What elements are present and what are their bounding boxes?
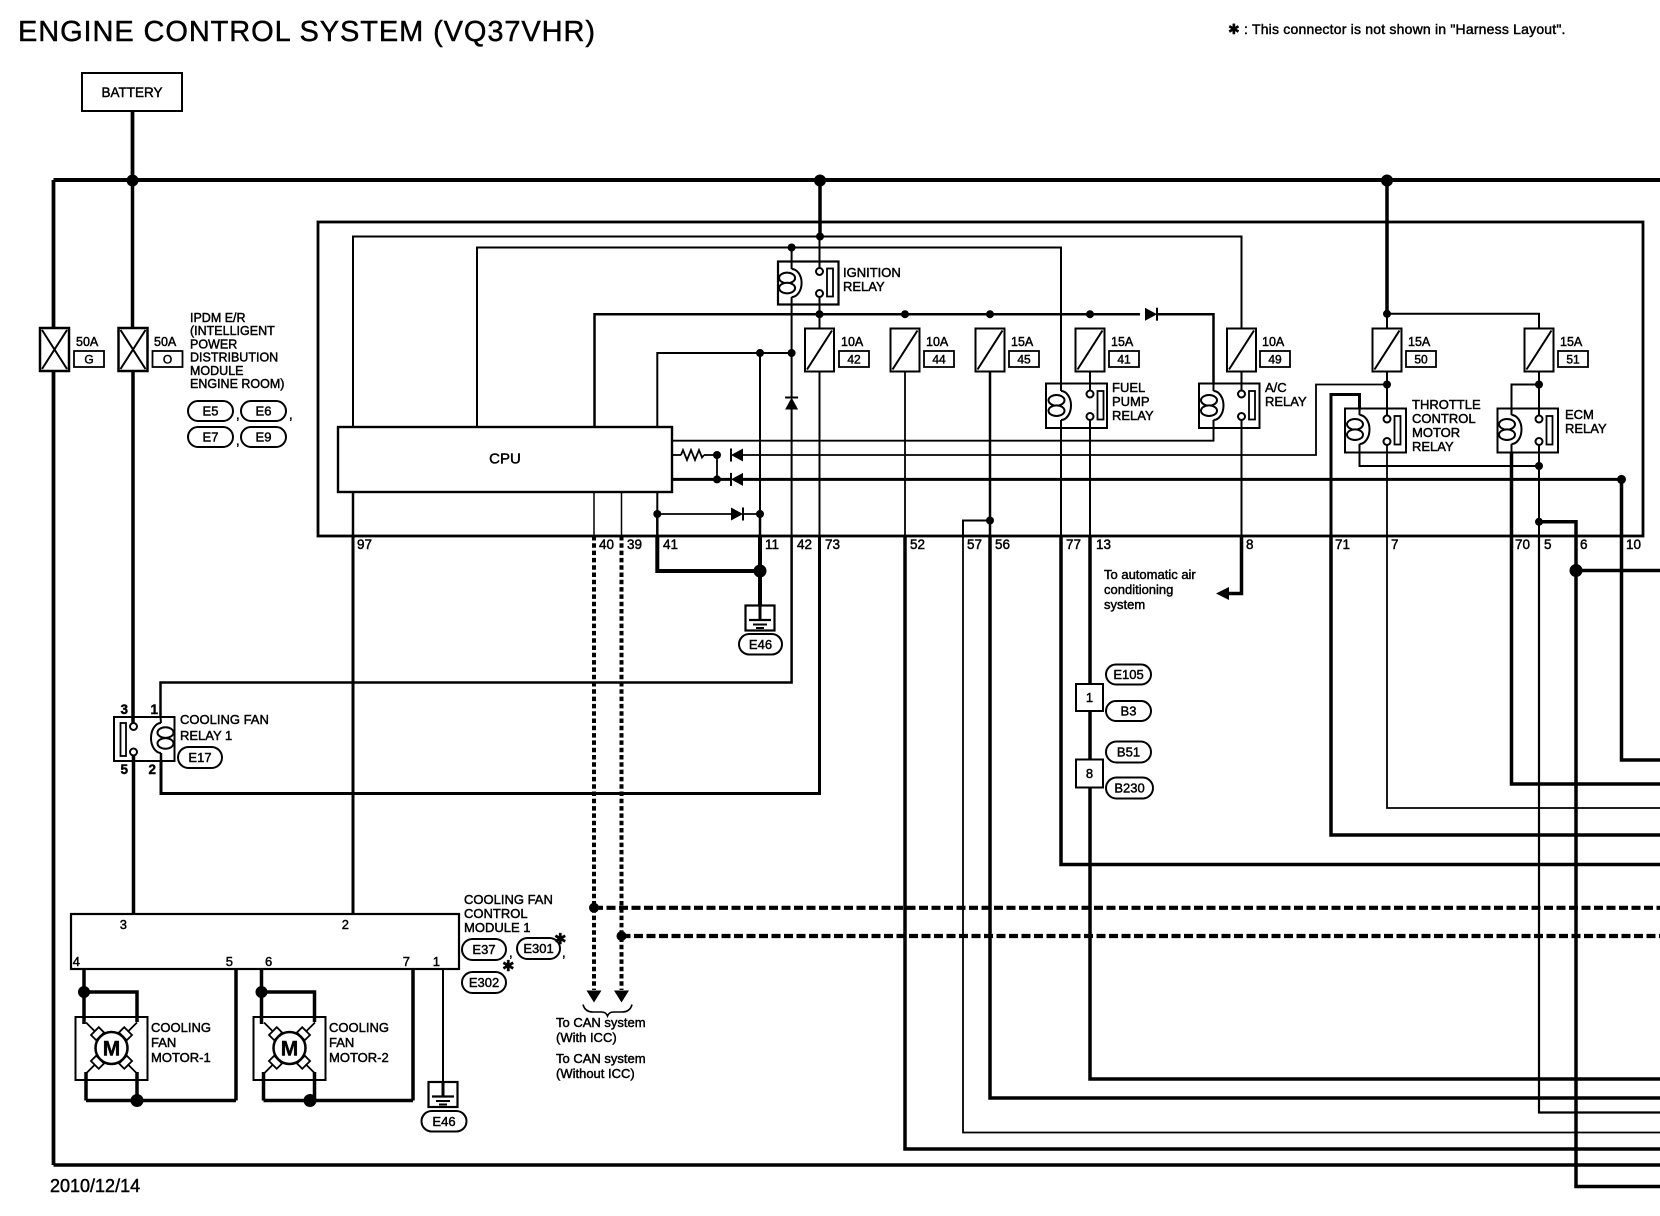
svg-text:COOLING FAN: COOLING FAN [464, 892, 553, 907]
svg-text:50A: 50A [76, 335, 99, 349]
svg-text:,: , [236, 407, 240, 422]
node ECM contact / throttle coil junction [1535, 462, 1543, 470]
svg-text:50A: 50A [154, 335, 177, 349]
IPDM E/R boundary box [318, 222, 1643, 536]
svg-text:G: G [84, 353, 93, 367]
svg-text:10A: 10A [926, 335, 949, 349]
svg-text:PUMP: PUMP [1112, 394, 1150, 409]
node motor2 return junction [304, 1094, 317, 1107]
svg-text:45: 45 [1017, 353, 1031, 367]
svg-text:IGNITION: IGNITION [843, 265, 901, 280]
wire pin 40 CAN-L drop [592, 536, 596, 990]
throttle relay contact [1384, 416, 1391, 423]
wire fuse41 to fuel pump contact [1089, 372, 1091, 391]
svg-text:1: 1 [433, 954, 440, 969]
wire module pin 1 to ground [442, 969, 444, 1082]
wire pin 39 CAN-H drop [620, 536, 624, 990]
CAN bus line 2 dashed [622, 934, 1660, 938]
wire pin 57 to right edge [963, 536, 1660, 1133]
wire link between line B and line C nodes [716, 455, 718, 479]
svg-text:15A: 15A [1560, 335, 1583, 349]
node motor2 feed [256, 986, 268, 998]
svg-text:10: 10 [1626, 537, 1641, 552]
svg-text:CPU: CPU [489, 451, 521, 468]
node fuse50 bottom [1383, 381, 1391, 389]
wire y247 feed from CPU to fuel pump coil [477, 248, 1061, 428]
svg-text:O: O [163, 353, 172, 367]
svg-text:6: 6 [1580, 537, 1588, 552]
svg-text:42: 42 [847, 353, 861, 367]
wire motor2 feed branch [262, 992, 315, 1022]
wire pin 71 to right edge [1331, 536, 1660, 835]
wire fuse O to cooling fan relay contact [131, 371, 135, 723]
node ground junction E46 [754, 565, 767, 578]
arrow to automatic A/C system [1216, 587, 1229, 600]
svg-text:RELAY: RELAY [843, 279, 885, 294]
wire battery to bus [131, 111, 135, 181]
throttle relay coil [1359, 409, 1361, 416]
wire pin 8 to A/C system arrow [1229, 536, 1242, 594]
ground E46 (module) [429, 1082, 458, 1107]
svg-text:,: , [236, 433, 240, 448]
wire throttle coil return to ECM contact line [1360, 453, 1540, 467]
wire pin 6 branch [1539, 522, 1660, 1187]
fuse 10A 49 [1227, 329, 1256, 372]
wire battery rail to fuse G [52, 180, 56, 328]
svg-text:97: 97 [357, 537, 372, 552]
node bus-right drop junction [1381, 175, 1393, 187]
node pin5/pin6 branch [1535, 518, 1543, 526]
diode D3 below CPU [731, 508, 743, 521]
svg-text:FUEL: FUEL [1112, 380, 1145, 395]
svg-text:THROTTLE: THROTTLE [1412, 397, 1481, 412]
fuel pump relay [1046, 384, 1107, 429]
svg-text:,: , [562, 945, 566, 960]
node motor1 feed [78, 986, 90, 998]
diode D1 on line B [731, 449, 743, 462]
svg-text:B3: B3 [1121, 704, 1137, 719]
svg-text:BATTERY: BATTERY [101, 85, 162, 100]
svg-text:FAN: FAN [151, 1035, 176, 1050]
fuse 15A 45 [976, 329, 1005, 372]
svg-text:5: 5 [120, 762, 128, 777]
svg-text:8: 8 [1086, 766, 1093, 781]
svg-text:E17: E17 [188, 750, 211, 765]
node relay contact bottom / fuse42 [816, 310, 824, 318]
svg-text:13: 13 [1096, 537, 1111, 552]
svg-text:MOTOR: MOTOR [1412, 425, 1460, 440]
wire throttle contact to pin 7 inside [1386, 445, 1388, 536]
wire ignition coil top stub [791, 248, 793, 262]
wire pin 11 to ground junction [758, 536, 762, 571]
fuse 15A 51 [1525, 329, 1554, 372]
svg-text:DISTRIBUTION: DISTRIBUTION [190, 351, 278, 365]
connector B51 [1106, 742, 1151, 763]
wire pin 73 to cooling fan relay coil return [161, 536, 820, 794]
wire feed to fuse 51 [1387, 314, 1539, 329]
svg-text:To CAN system: To CAN system [556, 1051, 646, 1066]
svg-text:2010/12/14: 2010/12/14 [50, 1176, 140, 1196]
svg-text:MODULE 1: MODULE 1 [464, 920, 530, 935]
svg-text:B51: B51 [1117, 745, 1140, 760]
svg-text:39: 39 [627, 537, 642, 552]
svg-text:RELAY: RELAY [1412, 439, 1454, 454]
wire A/C contact to pin 8 inside [1241, 428, 1243, 536]
wire module pin 4 [82, 969, 86, 992]
svg-text:COOLING FAN: COOLING FAN [180, 712, 269, 727]
svg-text:40: 40 [599, 537, 614, 552]
svg-text:M: M [103, 1038, 121, 1061]
svg-text:10A: 10A [1262, 335, 1285, 349]
svg-text:E7: E7 [203, 430, 219, 445]
node fuse41 feed [1086, 310, 1094, 318]
wire motor1 feed branch [84, 992, 137, 1022]
A/C relay coil [1213, 384, 1215, 392]
wire right drop from bus to fuse 50 [1385, 180, 1389, 314]
wire CPU pin 39 inside [621, 493, 623, 537]
wire CPU line C main run [672, 478, 731, 481]
wire ignition contact drop from bus [818, 180, 822, 237]
arrow to CAN system 1 [587, 991, 602, 1003]
svg-text:11: 11 [765, 537, 779, 552]
wire ECM contact to pin 5 inside [1538, 445, 1540, 536]
svg-text:B230: B230 [1114, 781, 1144, 796]
connector E6 [241, 401, 286, 421]
svg-text:ECM: ECM [1565, 407, 1594, 422]
wire pin 10 to right edge [1622, 479, 1660, 760]
wire diode to A/C relay coil [1157, 314, 1214, 383]
svg-text:2: 2 [342, 917, 349, 932]
connector E46 label (module ground) [422, 1111, 467, 1132]
svg-text:52: 52 [910, 537, 925, 552]
svg-text:conditioning: conditioning [1104, 582, 1173, 597]
fuse 10A 44 [891, 329, 920, 372]
svg-text:(With ICC): (With ICC) [556, 1030, 617, 1045]
wire pin 52 to right edge [905, 536, 1660, 1149]
svg-text:56: 56 [995, 537, 1010, 552]
ECM relay [1498, 409, 1559, 453]
wire pin 42 to cooling fan relay coil [161, 536, 792, 717]
wire ECM coil feed from fuse51 [1512, 385, 1540, 409]
node line C to pin10 [1617, 475, 1626, 484]
wire pin 77 to right edge [1061, 536, 1660, 865]
ECM relay contact [1536, 416, 1543, 423]
svg-text:15A: 15A [1408, 335, 1431, 349]
svg-text:CONTROL: CONTROL [1412, 411, 1476, 426]
svg-text:42: 42 [797, 537, 812, 552]
wire CPU pin 40 inside [593, 493, 595, 537]
svg-text:E9: E9 [256, 430, 272, 445]
CAN bus line 1 dashed [594, 906, 1660, 910]
node pin57 branch [986, 517, 994, 525]
wire battery drop to fuse O [131, 111, 135, 328]
svg-text:MOTOR-2: MOTOR-2 [329, 1050, 389, 1065]
connector E5 [188, 401, 233, 421]
zener diode D5 to pin42 [791, 353, 793, 398]
wire line B to throttle relay feed [743, 385, 1387, 456]
wire motor1 return to module pin 5 [137, 1099, 236, 1103]
fuse 10A 42 [819, 314, 821, 328]
svg-text:ENGINE ROOM): ENGINE ROOM) [190, 377, 284, 391]
node bus-battery junction [127, 175, 139, 187]
svg-text:3: 3 [120, 702, 128, 717]
node pin6 output junction [1570, 564, 1583, 577]
svg-text:RELAY: RELAY [1112, 408, 1154, 423]
cooling fan control module 1 [71, 914, 459, 969]
svg-text:E5: E5 [203, 404, 219, 419]
svg-text:E46: E46 [749, 637, 772, 652]
wire fuse50 to throttle contact [1386, 372, 1388, 416]
svg-text:✱: ✱ [502, 958, 515, 975]
wire motor2 return to module pin 7 [310, 1099, 413, 1103]
svg-text:49: 49 [1268, 353, 1282, 367]
wire throttle relay coil feed (pin 71 riser) [1331, 395, 1360, 537]
node pin41 diode junction [653, 510, 661, 518]
svg-text:41: 41 [1117, 353, 1131, 367]
fuel pump relay contact [1087, 391, 1094, 398]
wire motor1 return [84, 1072, 88, 1101]
svg-text:(Without ICC): (Without ICC) [556, 1066, 635, 1081]
node line C junction [713, 475, 721, 483]
connector E7 [188, 427, 233, 447]
svg-text:A/C: A/C [1265, 380, 1287, 395]
svg-text:4: 4 [73, 954, 80, 969]
wire y353 from CPU to ignition coil return [657, 353, 791, 427]
wire motor2 return [262, 1072, 266, 1101]
svg-text:COOLING: COOLING [329, 1020, 389, 1035]
cooling fan motor-2 [254, 1017, 326, 1080]
wire ignition coil bottom to y353 [791, 305, 793, 354]
node ignition coil return [788, 349, 796, 357]
wire pin 7 to right edge [1387, 536, 1660, 808]
svg-text:70: 70 [1515, 537, 1530, 552]
ECM relay coil [1511, 409, 1513, 416]
svg-text:E302: E302 [469, 975, 499, 990]
wire CPU pin 41 inside [656, 493, 658, 515]
cooling fan relay contact [121, 723, 127, 756]
CPU U1 [338, 427, 672, 492]
svg-text:E6: E6 [256, 404, 272, 419]
ignition relay [778, 262, 839, 305]
node fuse51 bottom [1535, 381, 1543, 389]
wire fuse G to left rail lower [52, 371, 56, 1165]
svg-text:1: 1 [1086, 690, 1093, 705]
cooling fan relay coil [160, 717, 163, 723]
wire CPU line A to A/C relay coil [672, 428, 1214, 441]
svg-text:M: M [281, 1038, 299, 1061]
svg-text:RELAY: RELAY [1265, 394, 1307, 409]
inline connector 8 (B51/B230) [1076, 760, 1103, 788]
node pin11 diode junction [756, 510, 764, 518]
wire to ground E46 [758, 571, 762, 606]
svg-text:To CAN system: To CAN system [556, 1015, 646, 1030]
svg-text:COOLING: COOLING [151, 1020, 211, 1035]
connector E37 [462, 939, 506, 960]
wire pin 70 to right edge [1512, 453, 1660, 785]
fuse 15A 41 [1076, 329, 1105, 372]
wire pin 97 to fan module pin 2 [352, 536, 355, 914]
svg-text:50: 50 [1414, 353, 1428, 367]
svg-text:7: 7 [1391, 537, 1399, 552]
svg-text:5: 5 [1544, 537, 1552, 552]
svg-text:ENGINE CONTROL SYSTEM (VQ37VHR: ENGINE CONTROL SYSTEM (VQ37VHR) [18, 16, 596, 48]
node fuse45 feed [986, 310, 994, 318]
svg-text:,: , [289, 407, 293, 422]
svg-text:✱ : This connector is not show: ✱ : This connector is not shown in "Harn… [1228, 21, 1566, 37]
wire fuse49 to A/C contact [1241, 372, 1243, 391]
node x820 y236 junction [816, 233, 824, 241]
svg-text:MOTOR-1: MOTOR-1 [151, 1050, 211, 1065]
wire pin 11 lower inside [759, 514, 762, 536]
svg-text:FAN: FAN [329, 1035, 354, 1050]
node ignition coil top junction [788, 244, 796, 252]
wire fuse51 to ECM contact [1538, 372, 1540, 416]
fuse 50A O [119, 328, 148, 371]
wire pin6 junction to right edge [1576, 569, 1660, 573]
connector E105 [1106, 665, 1151, 685]
svg-text:5: 5 [226, 954, 233, 969]
svg-text:E37: E37 [472, 942, 495, 957]
connector E17 [178, 747, 222, 768]
svg-text:10A: 10A [841, 335, 864, 349]
cooling fan relay 1 [114, 717, 175, 761]
svg-text:15A: 15A [1111, 335, 1134, 349]
diode D4 on fuse feed to A/C relay coil [1145, 308, 1157, 321]
svg-text:51: 51 [1566, 353, 1580, 367]
svg-text:44: 44 [932, 353, 946, 367]
svg-text:MODULE: MODULE [190, 364, 243, 378]
wire diode line below CPU [657, 513, 731, 515]
wire pin 56 to right edge [990, 536, 1660, 1098]
battery B1 [82, 73, 182, 111]
wire CPU pin 97 inside [352, 493, 355, 537]
node bus-ignition drop junction [814, 175, 826, 187]
wire pin11 upper segment [759, 353, 761, 514]
connector E302 [462, 972, 506, 993]
wire pin 5 to right edge [1539, 536, 1660, 1113]
node fuse50 feed junction [1383, 310, 1391, 318]
wire fuse45 to pin 56 inside [989, 372, 992, 537]
svg-text:IPDM E/R: IPDM E/R [190, 311, 246, 325]
svg-text:57: 57 [967, 537, 982, 552]
arrow to CAN system 2 [614, 991, 629, 1003]
svg-text:(INTELLIGENT: (INTELLIGENT [190, 324, 275, 338]
wire fuse44 to pin 52 inside [904, 372, 906, 537]
node fuse44 feed [901, 310, 909, 318]
diode D2 on line C [731, 473, 743, 486]
wire y236 feed from CPU to fuse 49 [353, 237, 1242, 428]
svg-text:RELAY: RELAY [1565, 421, 1607, 436]
svg-text:73: 73 [825, 537, 840, 552]
svg-text:8: 8 [1246, 537, 1254, 552]
A/C relay [1199, 384, 1260, 429]
wire A/C coil to line A [1213, 428, 1215, 441]
cooling fan motor-1 [76, 1017, 148, 1080]
svg-text:2: 2 [148, 762, 156, 777]
svg-text:77: 77 [1066, 537, 1081, 552]
connector B3 [1106, 701, 1151, 721]
wire pin57 jog [963, 521, 990, 537]
main power bus [54, 178, 1660, 182]
fuel pump relay coil [1060, 384, 1062, 392]
fuse 15A 50 [1373, 329, 1402, 372]
ignition relay contact [816, 268, 823, 275]
wire fuse row feed from CPU [595, 314, 1141, 427]
svg-text:system: system [1104, 597, 1145, 612]
wire left rail down [52, 180, 56, 1165]
brace under CAN arrows [583, 1005, 632, 1017]
svg-text:E301: E301 [523, 941, 553, 956]
node CAN-1 branch [589, 903, 599, 913]
wire relay contact to module pin 3 [132, 756, 136, 915]
ground E46 (IPDM) [746, 606, 775, 631]
svg-text:1: 1 [150, 702, 158, 717]
svg-text:E105: E105 [1113, 667, 1143, 682]
connector B230 [1106, 778, 1153, 799]
node CAN-2 branch [617, 931, 627, 941]
node line B resistor junction [713, 451, 721, 459]
inline connector 1 (E105/B3) [1076, 684, 1103, 711]
svg-text:CONTROL: CONTROL [464, 906, 528, 921]
resistor R1 on CPU line B [681, 450, 704, 460]
svg-text:7: 7 [403, 954, 410, 969]
wire module pin 6 [260, 969, 264, 992]
svg-text:E46: E46 [432, 1114, 455, 1129]
connector E46 label (IPDM ground) [739, 634, 782, 655]
connector E301 [517, 938, 560, 959]
svg-text:15A: 15A [1011, 335, 1034, 349]
A/C relay contact [1238, 391, 1245, 398]
wire CPU line B stub [672, 454, 681, 456]
wire left rail bottom run [54, 1163, 1660, 1167]
svg-text:41: 41 [663, 537, 678, 552]
svg-text:3: 3 [120, 917, 127, 932]
wire fuel pump coil to pin 77 inside [1060, 428, 1062, 536]
wire fuel pump contact to pin 13 inside [1089, 428, 1091, 536]
node pin11 branch [756, 349, 764, 357]
throttle control motor relay [1345, 409, 1406, 453]
svg-text:POWER: POWER [190, 337, 237, 351]
wire pin 41 to ground junction [657, 536, 760, 571]
ignition relay coil [791, 262, 793, 270]
svg-text:RELAY 1: RELAY 1 [180, 728, 232, 743]
svg-text:71: 71 [1335, 537, 1350, 552]
svg-text:6: 6 [265, 954, 272, 969]
connector E9 [241, 427, 286, 447]
wire pin 13 to right edge [1090, 536, 1660, 1079]
svg-text:To automatic air: To automatic air [1104, 567, 1196, 582]
fuse 50A G [40, 328, 69, 371]
node motor1 return junction [131, 1094, 144, 1107]
